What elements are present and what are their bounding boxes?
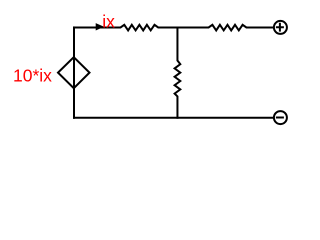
svg-text:10*ix: 10*ix xyxy=(13,65,52,85)
svg-text:ix: ix xyxy=(102,11,115,31)
